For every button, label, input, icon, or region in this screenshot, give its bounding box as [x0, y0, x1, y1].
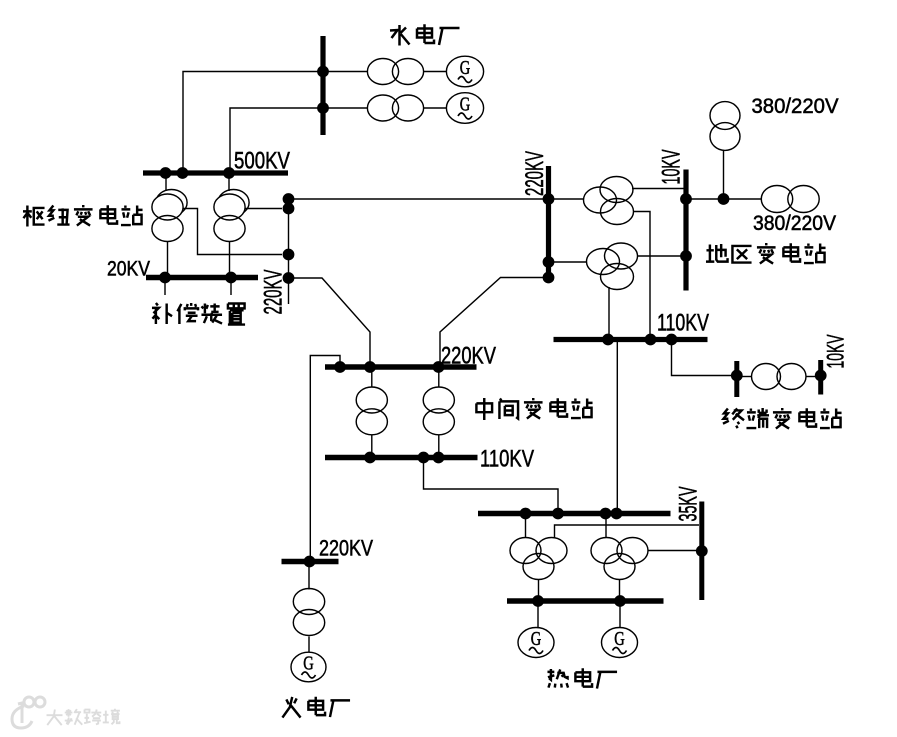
wire 220KV bar to transformer RB: [551, 261, 587, 263]
junction column / line to regional substation: [283, 193, 295, 205]
junction regional 110KV bus / RB: [602, 334, 614, 346]
wire T1 to generator G1: [424, 71, 447, 73]
junction regional 220KV bar / hub line and transformer RA: [543, 193, 555, 205]
20KV busbar: [146, 275, 258, 281]
junction 10KV bar / RB: [680, 250, 692, 262]
svg-text:20KV: 20KV: [107, 258, 150, 281]
wire HA to 35KV bar: [555, 525, 700, 539]
110KV busbar of regional substation: [554, 337, 708, 342]
wire hub 220KV node column (vertical): [288, 196, 290, 304]
transformer TA tertiary winding (arc behind): [156, 190, 187, 216]
junction 500KV bus / hydro line2 and transformer TB: [223, 167, 235, 179]
wire regional 220KV to intermediate 220KV bus (diagonal): [440, 278, 549, 365]
label 水电厂 (hydro plant): [390, 25, 410, 46]
35KV busbar of heat plant (vertical): [699, 502, 704, 601]
110KV busbar of intermediate substation: [325, 455, 478, 461]
junction generator bus / G2: [614, 595, 626, 607]
wire bar to thermal transformer: [308, 564, 310, 590]
wire 220KV bar to transformer RA: [551, 198, 584, 200]
wire TA middle tap to 220KV node column: [183, 209, 282, 255]
junction regional 110KV bus / RA: [645, 334, 657, 346]
label 枢纽变电站 (hub substation): [23, 205, 45, 226]
svg-text:380/220V: 380/220V: [753, 212, 836, 235]
wire 500KV bus to transformer TB primary: [228, 176, 230, 192]
wire TA secondary to 20KV bus: [167, 242, 169, 276]
wire regional 110KV bus to heat plant bus: [616, 342, 618, 511]
wire left bar to transformer: [739, 376, 752, 378]
svg-text:10KV: 10KV: [658, 149, 686, 184]
wire riser to upper 380/220V transformer: [723, 151, 725, 200]
terminal substation 10KV bar: [818, 360, 823, 395]
junction intermediate 110KV bus / MB: [433, 452, 445, 464]
transformer thermal winding a: [293, 589, 324, 615]
wire hydro bus to transformer T2: [326, 107, 368, 109]
hydro plant generator busbar (vertical): [320, 36, 325, 135]
svg-text:110KV: 110KV: [480, 446, 534, 473]
transformer thermal winding b: [293, 610, 324, 636]
junction heat bus / transformer HB: [600, 508, 612, 520]
500KV busbar of hub substation: [143, 170, 288, 175]
wire 500KV bus to transformer TA primary: [165, 176, 167, 192]
wire bus to transformer MB: [438, 370, 440, 388]
generator G (thermal plant): [291, 652, 326, 682]
wire hub 220KV to intermediate 220KV bus (diagonal): [289, 278, 371, 364]
transformer TA primary winding: [152, 194, 183, 220]
wire transformer to right bar: [806, 376, 818, 378]
wire HB to 35KV bar: [648, 550, 699, 552]
junction heat bus / transformer HA: [520, 508, 532, 520]
svg-text:10KV: 10KV: [823, 335, 850, 369]
generator G2 (hydro): [446, 93, 483, 124]
junction distribution line / riser: [718, 193, 730, 205]
transformer terminal winding b: [777, 364, 806, 390]
junction generator bus / G1: [532, 595, 544, 607]
wire TB secondary to 20KV bus: [229, 242, 231, 276]
label 热电厂 (heat plant): [547, 669, 568, 688]
wire compensation device stub 2: [230, 280, 232, 295]
transformer T2 hydro winding a: [367, 95, 398, 121]
wire RB to 10KV bar: [637, 255, 686, 257]
watermark text 大数跨境: [47, 710, 63, 726]
junction column / TB tap: [283, 203, 295, 215]
transformer HA winding 2: [536, 538, 567, 564]
wire generator bus to G1: [537, 604, 539, 628]
junction terminal left bar: [731, 370, 743, 382]
junction heat bus / line from regional: [611, 508, 623, 520]
transformer RA winding 1 (220KV): [584, 187, 617, 213]
junction intermediate 110KV bus / MA: [364, 452, 376, 464]
junction hydro bus / line1: [317, 66, 329, 78]
generator G1 (hydro): [446, 56, 483, 87]
junction heat bus / line from intermediate: [552, 508, 564, 520]
svg-text:220KV: 220KV: [319, 536, 373, 561]
junction thermal 220KV bar: [304, 556, 316, 568]
wire compensation device stub 1: [164, 280, 166, 295]
transformer HB winding 1: [591, 538, 622, 564]
transformer HA winding 3: [523, 554, 554, 580]
220KV busbar of intermediate substation: [325, 364, 477, 370]
wire heat bus to transformer HA: [525, 516, 527, 538]
wire RB to 110KV bus: [608, 287, 610, 337]
junction regional 110KV bus / terminal line: [666, 334, 678, 346]
heat plant generator busbar: [507, 598, 664, 604]
transformer RB winding 1 (220KV): [587, 249, 620, 275]
junction 20KV bus / TB: [225, 272, 237, 284]
watermark logo: [12, 697, 45, 728]
wire HA to generator bus: [538, 580, 540, 600]
transformer RA winding 2 (10KV): [600, 177, 633, 203]
transformer HB winding 2: [617, 538, 648, 564]
transformer T1 hydro winding b: [392, 59, 423, 85]
transformer terminal winding a: [752, 364, 781, 390]
transformer 380/220V lower winding a: [761, 186, 792, 213]
wire MA to 110KV bus: [371, 435, 373, 456]
wire thermal transformer to generator: [308, 637, 310, 653]
junction column / TA tap: [283, 249, 295, 261]
wire MB to 110KV bus: [438, 435, 440, 456]
transformer HA winding 1: [510, 538, 541, 564]
transformer T2 hydro winding b: [392, 95, 423, 121]
wire hydro line2 to 500KV bus: [230, 108, 323, 171]
transformer MB winding a: [423, 387, 454, 413]
transformer HB winding 3: [604, 554, 635, 580]
transformer TA secondary winding: [152, 216, 183, 242]
junction intermediate 220KV bus / hub line and transformer MA: [364, 361, 376, 373]
wire HB to generator bus: [619, 580, 621, 600]
svg-text:380/220V: 380/220V: [752, 95, 839, 118]
junction 35KV bar / HB: [696, 545, 708, 557]
wire regional 110KV bus to terminal substation: [672, 342, 735, 376]
transformer MB winding b: [423, 409, 454, 435]
wire RA to 10KV bar: [632, 188, 686, 190]
junction regional 220KV bar / transformer RB: [543, 256, 555, 268]
transformer 380/220V upper winding a: [710, 102, 740, 130]
transformer TB tertiary winding (arc behind): [218, 190, 249, 216]
wire hydro bus to transformer T1: [326, 71, 368, 73]
label 终端变电站 (terminal substation): [723, 408, 744, 428]
svg-text:220KV: 220KV: [260, 269, 288, 314]
junction intermediate 220KV bus / thermal plant line: [334, 361, 346, 373]
wire RA to 110KV bus: [633, 212, 650, 338]
label 中间变电站 (intermediate substation): [476, 398, 492, 420]
junction terminal 10KV bar: [815, 370, 827, 382]
heat plant upper busbar: [478, 511, 671, 517]
junction 500KV bus / transformer TA: [160, 167, 172, 179]
junction intermediate 110KV bus / heat plant line: [418, 452, 430, 464]
wire intermediate 220KV bus to thermal plant 220KV bar: [310, 356, 340, 560]
transformer 380/220V upper winding b: [710, 123, 740, 151]
transformer RB winding 2 (10KV): [605, 243, 638, 269]
transformer MA winding a: [356, 387, 387, 413]
svg-text:220KV: 220KV: [521, 151, 549, 196]
wire hub 220KV to regional 220KV bar: [289, 198, 549, 200]
junction 500KV bus / hydro line1: [177, 167, 189, 179]
junction intermediate 220KV bus / regional line and transformer MB: [433, 361, 445, 373]
transformer 380/220V lower winding b: [788, 186, 819, 213]
label 补偿装置 (compensation device): [152, 303, 172, 324]
wire hydro line1 to 500KV bus: [183, 72, 323, 172]
220KV busbar of regional substation (vertical): [546, 166, 551, 280]
junction column / line to intermediate substation: [283, 272, 295, 284]
svg-text:35KV: 35KV: [675, 486, 703, 521]
wire TB middle tap to 220KV node column: [245, 208, 282, 210]
transformer T1 hydro winding a: [367, 59, 398, 85]
wire T2 to generator G2: [424, 107, 447, 109]
junction hydro bus / line2: [317, 102, 329, 114]
wire generator bus to G2: [619, 604, 621, 628]
junction regional 220KV bar / line to intermediate: [543, 272, 555, 284]
wire intermediate 110KV bus to heat plant bus: [424, 460, 559, 511]
label 地区变电站 (regional substation): [706, 244, 728, 262]
wire heat bus to transformer HB: [605, 516, 607, 538]
transformer TB secondary winding: [214, 216, 245, 242]
generator G1 (heat plant): [518, 628, 554, 658]
transformer TB primary winding: [214, 194, 245, 220]
svg-text:110KV: 110KV: [657, 310, 709, 337]
terminal substation left bar: [734, 361, 739, 397]
wire 10KV bar to 380/220V transformers: [686, 198, 762, 200]
junction 20KV bus / TA: [159, 272, 171, 284]
junction 10KV bar / distribution line: [680, 193, 692, 205]
transformer RB winding 3 (110KV): [601, 264, 634, 290]
svg-text:220KV: 220KV: [441, 343, 496, 370]
10KV busbar of regional substation (vertical): [683, 170, 688, 291]
generator G2 (heat plant): [602, 628, 638, 658]
transformer RA winding 3 (110KV): [601, 199, 634, 225]
svg-text:500KV: 500KV: [234, 148, 290, 175]
220KV bar of thermal plant: [282, 559, 339, 565]
wire bus to transformer MA: [371, 370, 373, 388]
transformer MA winding b: [356, 409, 387, 435]
label 火电厂 (thermal plant): [282, 697, 300, 718]
